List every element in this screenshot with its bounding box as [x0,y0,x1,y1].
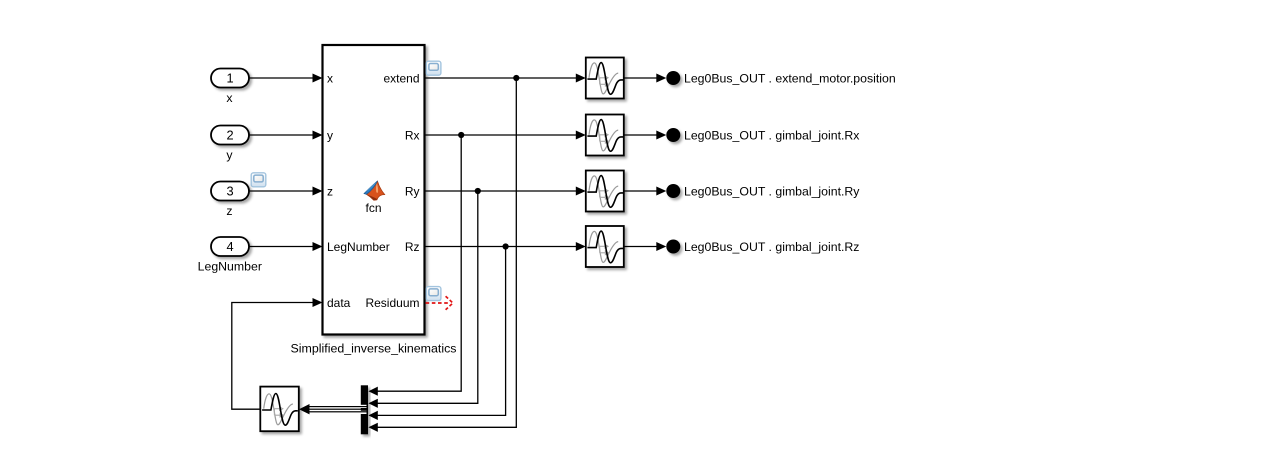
svg-text:3: 3 [226,184,233,199]
svg-text:Residuum: Residuum [365,296,419,310]
arrowhead busout3 [656,187,666,196]
MATLAB Function block Simplified_inverse_kinematics [323,45,425,335]
junction dot Rx branch [458,132,464,138]
arrowhead busout1 [656,74,666,83]
svg-text:2: 2 [226,128,233,143]
MATLAB fcn logo [364,181,385,200]
scope block 2 [586,115,624,156]
arrowhead into scope3 [576,187,586,196]
unconnected signal Residuum (red dashed) [426,296,453,310]
inport block 1 [211,69,249,88]
wire extend branch down [378,78,517,427]
wire inport2 to block y [249,134,314,136]
viewer badge at Residuum [426,287,441,301]
junction dot Rz branch [503,243,509,249]
arrowhead busout2 [656,131,666,140]
svg-text:x: x [327,71,333,85]
wire scope2 to busout2 [624,134,658,136]
wire inport4 to block LegNumber [249,246,314,248]
arrowhead into scope2 [576,131,586,140]
svg-text:Leg0Bus_OUT . extend_motor.pos: Leg0Bus_OUT . extend_motor.position [684,71,896,85]
arrowhead wide signal into converter [299,404,310,414]
wire Rz branch down [378,247,506,416]
svg-text:z: z [327,184,333,198]
scope block 1 [586,58,624,99]
arrowhead into mux port3 [368,411,377,420]
wide muxed signal to converter block [309,406,367,412]
arrowhead into x [313,74,323,83]
svg-text:data: data [327,296,351,310]
scope block 4 [586,226,624,267]
arrowhead into mux port1 [368,387,377,396]
svg-text:Rx: Rx [405,128,420,142]
converter block (scope-style icon, flipped ports) [260,387,299,432]
arrowhead into scope4 [576,242,586,251]
wire Ry branch down [378,191,478,403]
junction dot extend branch [513,75,519,81]
inport block 2 [211,126,249,145]
svg-text:Ry: Ry [405,184,420,198]
mux output notch [360,405,366,414]
arrowhead into mux port2 [368,399,377,408]
wire inport1 to block x [249,77,314,79]
svg-text:z: z [226,204,232,218]
mux block (flipped) [361,385,368,434]
arrowhead into scope1 [576,74,586,83]
bus element out port 2 [666,128,680,142]
arrowhead busout4 [656,242,666,251]
wire scope3 to busout3 [624,190,658,192]
arrowhead into y [313,131,323,140]
wire Rx to scope2 [425,134,578,136]
svg-text:4: 4 [226,239,233,254]
arrowhead into data [313,298,323,307]
svg-text:Leg0Bus_OUT . gimbal_joint.Ry: Leg0Bus_OUT . gimbal_joint.Ry [684,184,860,198]
svg-text:LegNumber: LegNumber [198,260,262,274]
bus element out port 4 [666,240,680,254]
svg-text:x: x [226,91,233,105]
viewer badge at extend wire [426,61,441,75]
wire inport3 to block z [249,190,314,192]
arrowhead into z [313,187,323,196]
svg-text:extend: extend [383,71,419,85]
bus element out port 3 [666,184,680,198]
scope block 3 [586,171,624,212]
bus element out port 1 [666,71,680,85]
svg-text:Rz: Rz [405,240,420,254]
svg-text:1: 1 [226,71,233,86]
inport block 3 [211,182,249,201]
svg-text:Leg0Bus_OUT . gimbal_joint.Rz: Leg0Bus_OUT . gimbal_joint.Rz [684,240,859,254]
arrowhead into LegNumber [313,242,323,251]
viewer badge at z wire [251,173,266,187]
junction dot Ry branch [475,188,481,194]
svg-text:y: y [327,128,333,142]
wire extend to scope1 [425,77,578,79]
wire scope1 to busout1 [624,77,658,79]
wire Rx branch down [378,135,462,391]
inport block 4 [211,237,249,256]
wire Ry to scope3 [425,190,578,192]
svg-text:Leg0Bus_OUT . gimbal_joint.Rx: Leg0Bus_OUT . gimbal_joint.Rx [684,128,860,142]
arrowhead into mux port4 [368,423,377,432]
wire scope4 to busout4 [624,246,658,248]
wire Rz to scope4 [425,246,578,248]
svg-text:fcn: fcn [365,201,381,215]
feedback wire converter to data [232,303,314,410]
svg-text:y: y [226,148,233,162]
svg-text:Simplified_inverse_kinematics: Simplified_inverse_kinematics [291,341,457,355]
svg-text:LegNumber: LegNumber [327,240,390,254]
